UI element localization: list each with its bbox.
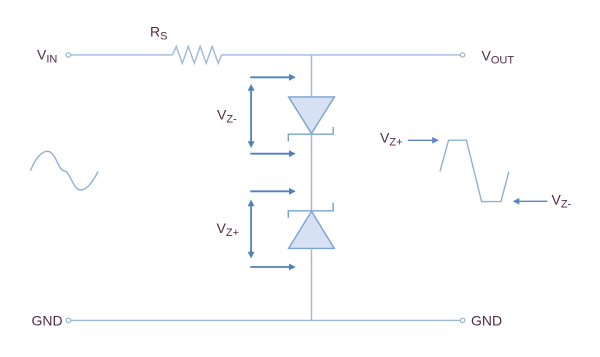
wire top rail to D1 xyxy=(311,55,313,97)
arrow bottom of VZ+ span xyxy=(250,264,295,271)
arrow top of VZ- span xyxy=(250,74,295,81)
zener diode D2 xyxy=(288,203,334,249)
svg-text:GND: GND xyxy=(32,313,63,329)
ground rail wire xyxy=(71,319,461,321)
terminal GND left xyxy=(66,318,70,322)
terminal VOUT xyxy=(460,53,464,57)
output clipped waveform xyxy=(440,140,509,201)
terminal GND right xyxy=(460,318,464,322)
terminal VIN xyxy=(66,53,70,57)
arrow bottom of VZ- span xyxy=(250,150,295,157)
wire VIN to RS xyxy=(71,54,173,56)
arrow top of VZ+ span xyxy=(250,188,295,195)
svg-text:GND: GND xyxy=(471,313,502,329)
wire D1 to D2 xyxy=(311,134,313,211)
measurement arrow VZ- span xyxy=(248,84,255,148)
input sine waveform xyxy=(31,151,99,190)
arrow VZ+ pointer xyxy=(408,137,439,144)
arrow VZ- pointer xyxy=(513,198,548,205)
zener diode D1 xyxy=(288,97,334,142)
wire D2 to ground rail xyxy=(311,248,313,320)
wire RS to VOUT xyxy=(222,54,461,56)
measurement arrow VZ+ span xyxy=(248,200,255,259)
resistor RS xyxy=(173,46,222,63)
